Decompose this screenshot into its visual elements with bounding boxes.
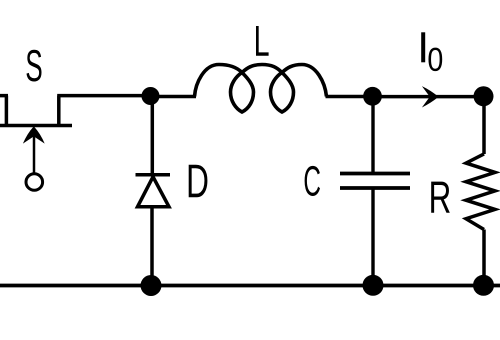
wire node B to node C xyxy=(373,95,485,99)
node C xyxy=(474,86,494,106)
capacitor C bottom plate xyxy=(340,186,410,190)
node D1 bottom diode junction xyxy=(141,275,162,296)
wire left input terminal xyxy=(0,96,8,126)
label C xyxy=(305,166,320,196)
switch S gate arrow xyxy=(23,126,45,143)
wire node A to inductor xyxy=(151,95,197,99)
node B xyxy=(363,87,382,106)
label L xyxy=(256,26,269,56)
wire node A to diode xyxy=(151,96,155,175)
switch S gate wire xyxy=(33,135,36,173)
wire inductor to node B xyxy=(326,95,375,99)
label I xyxy=(421,32,425,62)
diode D triangle xyxy=(138,177,170,207)
current arrow Io xyxy=(422,86,439,107)
node D3 bottom resistor junction xyxy=(473,275,494,296)
wire bottom rail xyxy=(0,284,500,288)
label R xyxy=(431,182,450,213)
label S xyxy=(27,50,42,82)
wire diode to bottom node D1 xyxy=(150,207,154,286)
label 0 subscript xyxy=(428,48,442,72)
capacitor C top plate xyxy=(340,172,410,176)
wire node B to capacitor xyxy=(371,96,374,173)
node A xyxy=(142,87,160,105)
wire node C to resistor xyxy=(482,96,486,154)
wire resistor to bottom node D3 xyxy=(482,230,486,287)
switch S bar xyxy=(0,124,72,128)
inductor L coil xyxy=(195,65,327,113)
node D2 bottom capacitor junction xyxy=(363,275,384,296)
wire capacitor to bottom node D2 xyxy=(371,188,374,286)
label D xyxy=(189,165,208,197)
wire switch drain to node A xyxy=(57,96,152,126)
diode D cathode bar xyxy=(136,173,171,177)
resistor R zigzag xyxy=(466,154,495,230)
switch S gate terminal circle xyxy=(26,174,43,191)
